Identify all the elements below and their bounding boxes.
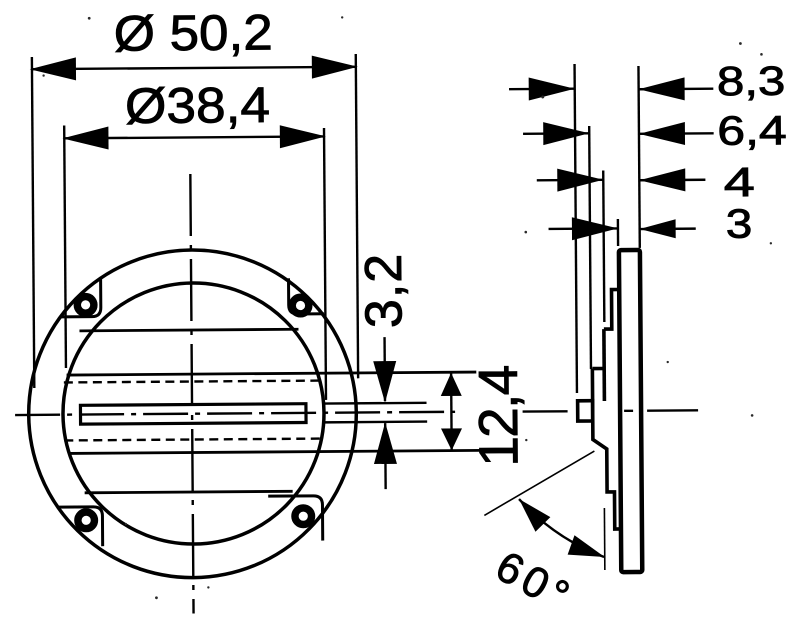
dim 12,4 arrow up xyxy=(441,373,462,396)
angle arrow lower xyxy=(567,535,604,557)
dim Ø50,2 arrow right xyxy=(312,55,358,78)
dim Ø38,4 arrow right xyxy=(280,125,326,148)
dim 6,4 left arrow xyxy=(543,122,589,145)
tab top-left xyxy=(60,279,101,317)
dim 3,2 arrow down xyxy=(373,361,396,403)
tab bottom-left xyxy=(59,507,103,547)
profile lower outline xyxy=(592,368,621,529)
dim 4 left leader xyxy=(537,179,603,182)
dim 12,4 line xyxy=(450,374,453,451)
dim 6,4 left leader xyxy=(523,132,589,135)
slot bottom ext line xyxy=(323,420,427,423)
ext line 3 xyxy=(617,219,620,246)
dim 3,2 leader above xyxy=(383,337,386,401)
dim 4 left arrow xyxy=(557,168,603,191)
dim 3 right arrow xyxy=(640,219,676,238)
centerline dash right of faceplate xyxy=(647,409,698,412)
ext line 8,3 xyxy=(575,64,577,393)
grille chord bottom xyxy=(85,491,293,493)
dim 3 left leader xyxy=(549,227,618,230)
angle arrow upper xyxy=(519,499,550,532)
ext line 6,4 xyxy=(589,126,591,369)
ext line 4 xyxy=(603,171,604,322)
dim 8,3 right leader xyxy=(639,87,714,90)
dim 3 left arrow xyxy=(572,217,618,240)
dim 8,3 left leader xyxy=(509,88,575,91)
ext line right face xyxy=(638,66,639,248)
dim Ø50,2 arrow left xyxy=(30,57,76,80)
profile upper steps xyxy=(604,289,620,329)
tab bottom-right xyxy=(268,496,323,541)
dim 4 right leader xyxy=(639,179,705,182)
channel bottom line xyxy=(69,450,481,453)
terminal notch xyxy=(578,401,593,421)
slot top ext line xyxy=(323,402,426,405)
slot rectangle xyxy=(80,404,306,424)
dim 6,4 right arrow xyxy=(639,122,685,145)
svg-text:3: 3 xyxy=(726,201,753,247)
dim Ø38,4 arrow left xyxy=(62,127,108,150)
vertical centerline xyxy=(190,174,193,613)
dim Ø50,2 line xyxy=(32,67,356,69)
svg-text:Ø38,4: Ø38,4 xyxy=(125,77,270,134)
hole bottom-left xyxy=(78,512,95,529)
profile inner edge xyxy=(602,329,606,401)
dim 12,4 arrow down xyxy=(441,428,462,450)
centerline dash mid xyxy=(523,410,568,413)
outer circle xyxy=(27,249,357,579)
dashed line upper xyxy=(64,381,320,383)
dim 6,4 right leader xyxy=(639,132,714,135)
dim 3,2 arrow up xyxy=(374,422,397,464)
angle line diagonal xyxy=(484,451,595,515)
faceplate xyxy=(619,250,642,572)
svg-text:12,4: 12,4 xyxy=(467,366,530,467)
dim 3 right leader xyxy=(640,227,696,230)
angle line vertical xyxy=(603,508,605,570)
centerline dash in faceplate xyxy=(624,410,633,412)
dim 4 right arrow xyxy=(639,168,685,191)
svg-text:8,3: 8,3 xyxy=(717,58,786,105)
dim Ø38,4 ext line right xyxy=(324,128,326,400)
hole top-left xyxy=(77,297,94,314)
angle arc xyxy=(519,498,604,557)
channel top line xyxy=(67,372,477,375)
profile step3 xyxy=(592,367,604,371)
hole top-right xyxy=(292,297,309,314)
svg-text:3,2: 3,2 xyxy=(355,253,414,329)
svg-text:4: 4 xyxy=(724,159,755,205)
svg-text:6,4: 6,4 xyxy=(717,107,787,154)
dim Ø38,4 ext line left xyxy=(64,125,66,367)
dim Ø50,2 ext line left xyxy=(32,57,34,388)
hole bottom-right xyxy=(295,508,312,525)
horizontal centerline xyxy=(15,412,455,415)
grille chord top xyxy=(79,329,298,331)
svg-text:Ø 50,2: Ø 50,2 xyxy=(114,4,273,61)
dim 8,3 left arrow xyxy=(529,77,575,100)
dashed line lower xyxy=(64,439,320,441)
dim Ø38,4 line xyxy=(64,136,324,138)
dim 3,2 leader below xyxy=(384,423,387,489)
dim 8,3 right arrow xyxy=(639,77,685,100)
tab top-right xyxy=(289,278,324,314)
dim Ø50,2 ext line right xyxy=(356,54,358,378)
inner circle xyxy=(62,282,325,545)
